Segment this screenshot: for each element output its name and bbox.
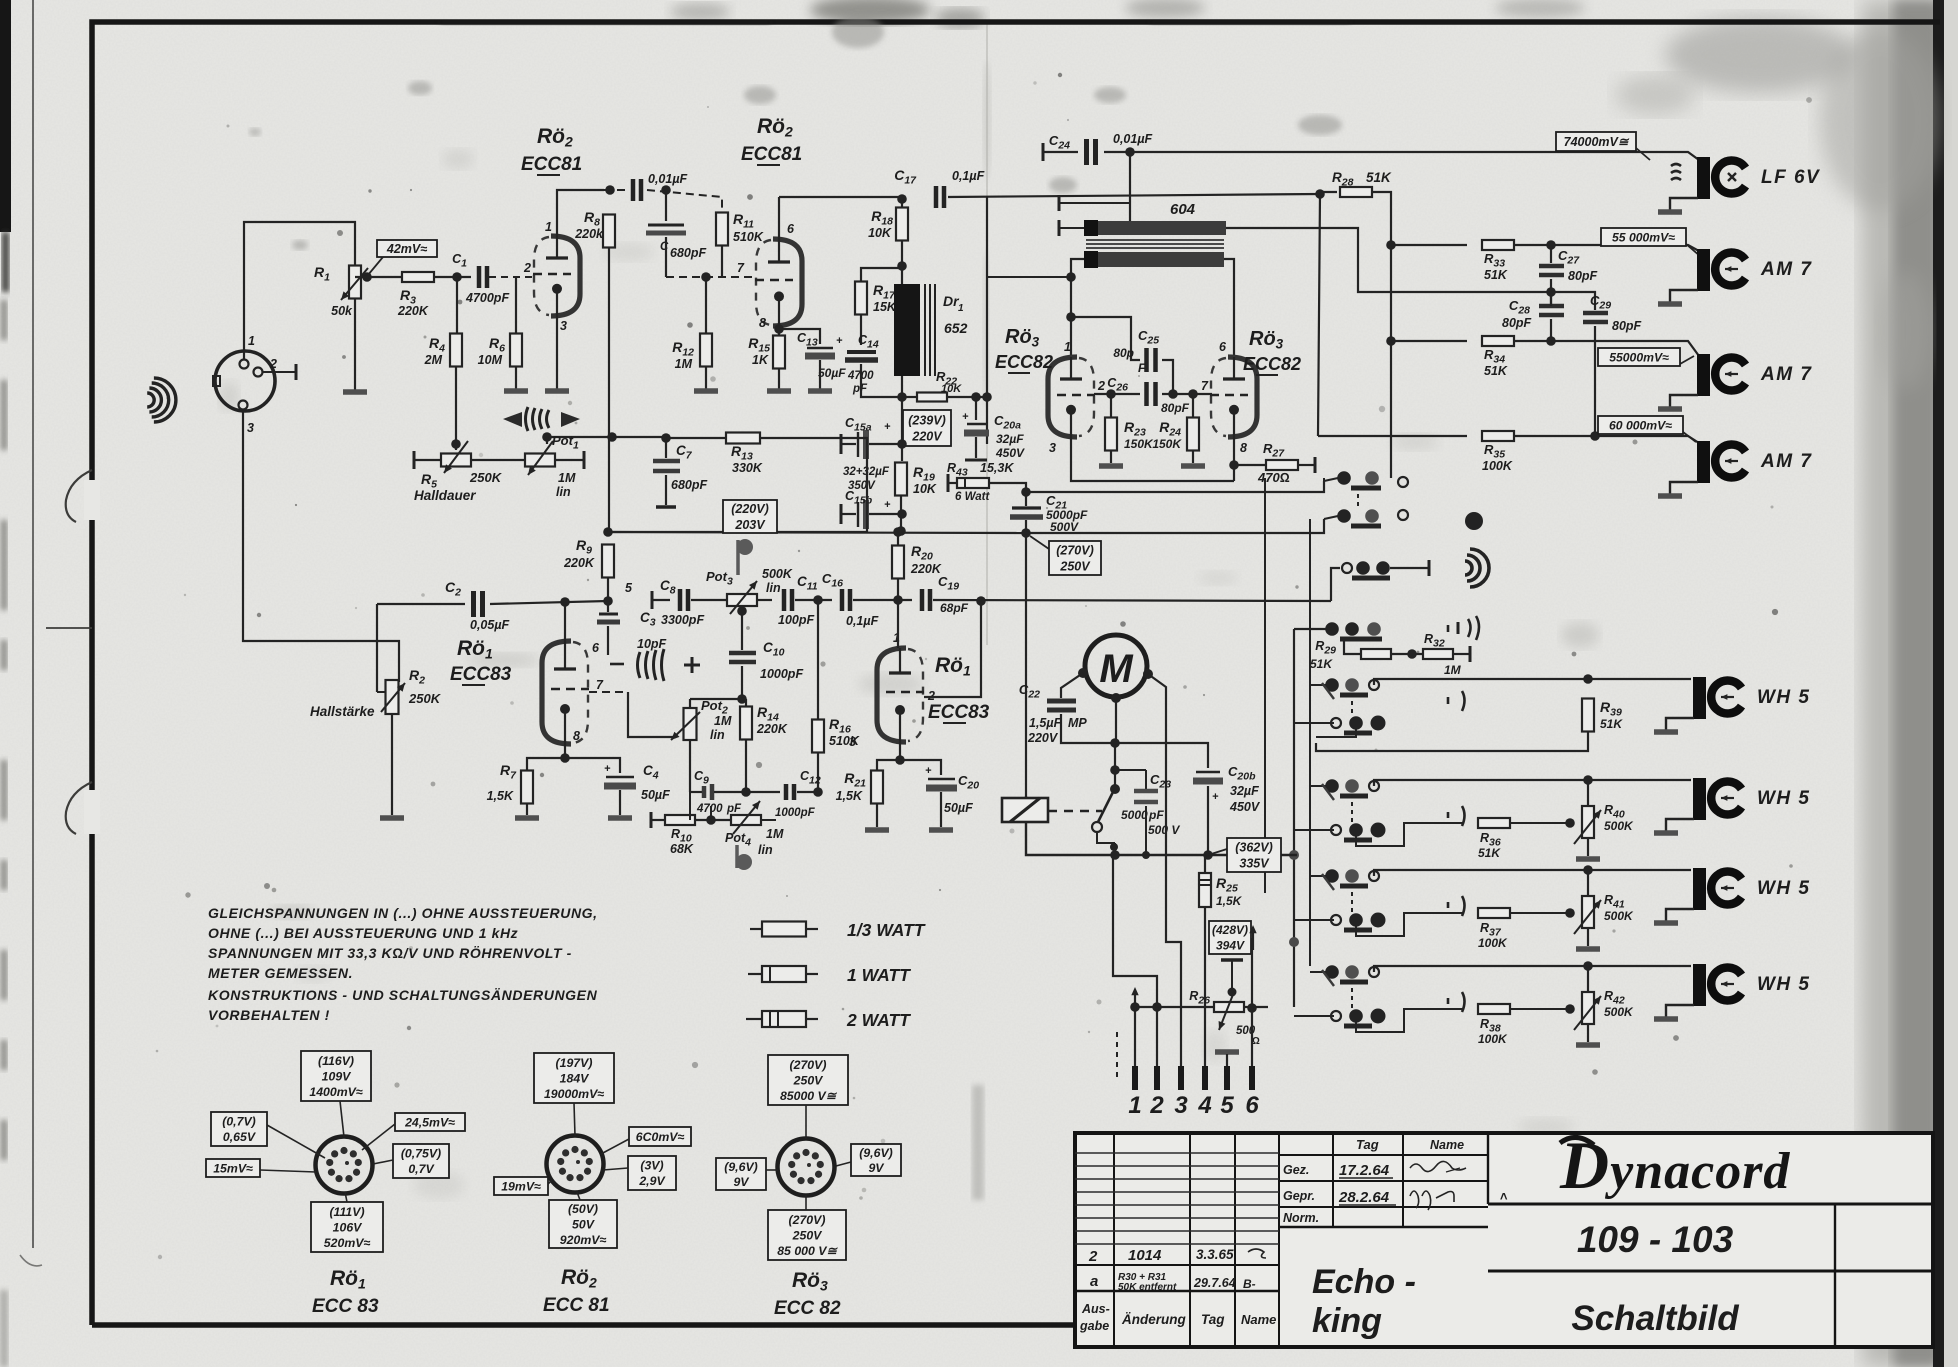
svg-text:652: 652 — [944, 320, 968, 336]
capacitor C15b — [840, 504, 843, 524]
svg-text:(428V): (428V) — [1212, 923, 1248, 937]
switch cluster for WH5 no4 — [1325, 965, 1339, 979]
svg-text:50K entfernt: 50K entfernt — [1118, 1282, 1177, 1293]
measurement box 220V 203V — [723, 500, 777, 533]
tube Roe3a ECC82 — [1048, 357, 1077, 437]
svg-text:1 WATT: 1 WATT — [847, 965, 911, 985]
svg-text:51K: 51K — [1310, 657, 1333, 671]
resistor R29 51K — [1294, 628, 1332, 630]
svg-text:1: 1 — [1128, 1092, 1141, 1119]
svg-text:WH 5: WH 5 — [1757, 974, 1811, 995]
svg-text:50V: 50V — [572, 1217, 596, 1231]
ground below tube Roe2a cathode — [556, 316, 558, 389]
svg-text:80pF: 80pF — [1502, 316, 1532, 330]
svg-text:+: + — [884, 499, 891, 511]
svg-text:Norm.: Norm. — [1283, 1211, 1319, 1225]
wire row y=699 pot2/R14 — [690, 698, 746, 700]
title mini table Gez Gepr Norm — [1279, 1154, 1488, 1156]
svg-text:VORBEHALTEN !: VORBEHALTEN ! — [208, 1007, 330, 1023]
svg-text:15K: 15K — [873, 300, 897, 314]
svg-text:1M: 1M — [558, 471, 576, 485]
signature squiggles — [1410, 1161, 1466, 1171]
wire tube plate up to C5 net — [557, 190, 604, 236]
svg-text:51K: 51K — [1484, 364, 1508, 378]
svg-text:203V: 203V — [734, 518, 766, 532]
svg-text:60 000mV≈: 60 000mV≈ — [1609, 418, 1672, 432]
svg-text:42mV≈: 42mV≈ — [386, 242, 427, 256]
connector AM7 no1 — [1697, 249, 1710, 291]
potentiometer Pot3 500K lin — [727, 594, 757, 606]
tube Roe1b ECC83 — [877, 648, 906, 742]
wire left stub row — [987, 276, 1071, 278]
svg-text:394V: 394V — [1216, 939, 1245, 953]
resistor 100K and pot 41 — [1374, 870, 1691, 876]
capacitor C19 68pF — [920, 589, 925, 611]
resistor R8 220k — [603, 215, 615, 248]
svg-text:ECC82: ECC82 — [995, 352, 1053, 372]
svg-text:2 WATT: 2 WATT — [846, 1010, 911, 1030]
svg-text:68K: 68K — [670, 842, 694, 856]
resistor R25 1,5K — [1204, 855, 1206, 873]
wire transformer bottom-right to Roe3b — [1224, 259, 1234, 357]
potentiometer R26 500 Ohm — [1135, 1006, 1213, 1008]
svg-text:(9,6V): (9,6V) — [724, 1160, 758, 1174]
node R43/C21 — [1021, 487, 1031, 497]
capacitor C17 0,1uF — [934, 186, 939, 208]
capacitor C21 5000pF 500V — [1012, 506, 1041, 509]
resistor R4 2M — [456, 277, 458, 333]
ground below R23 — [1099, 463, 1123, 469]
switch cluster S1 (upper, near R27) — [1337, 471, 1351, 485]
title 109-103 box — [1488, 1270, 1933, 1273]
svg-text:28.2.64: 28.2.64 — [1338, 1189, 1390, 1206]
tube pinout R&#246;2 ECC 81 — [547, 1136, 604, 1193]
svg-text:80pF: 80pF — [1568, 269, 1598, 283]
tube Roe3b ECC82 — [1228, 357, 1257, 437]
main signal wire y=600 — [652, 599, 670, 601]
svg-text:ECC83: ECC83 — [928, 702, 990, 723]
svg-text:450V: 450V — [995, 446, 1025, 460]
svg-text:19mV≈: 19mV≈ — [501, 1179, 541, 1193]
svg-text:WH 5: WH 5 — [1757, 687, 1811, 708]
resistor R9 220K — [602, 545, 614, 578]
svg-text:220K: 220K — [563, 556, 595, 570]
svg-text:510K: 510K — [733, 230, 764, 244]
level marks — [1447, 902, 1450, 908]
svg-text:5000: 5000 — [1121, 808, 1148, 822]
connector WH5 no2 — [1693, 778, 1706, 820]
grid wire Roe1b to C19 node — [924, 601, 981, 697]
svg-text:1M: 1M — [714, 714, 732, 728]
svg-text:(239V): (239V) — [908, 413, 946, 427]
svg-text:3: 3 — [247, 421, 254, 435]
svg-text:17.2.64: 17.2.64 — [1339, 1162, 1390, 1179]
svg-text:(270V): (270V) — [790, 1058, 827, 1072]
svg-text:1: 1 — [1064, 340, 1071, 354]
svg-text:1/3 WATT: 1/3 WATT — [847, 920, 926, 940]
microphone symbol — [147, 393, 154, 407]
svg-text:+: + — [962, 411, 969, 423]
measurement box 239V 220V — [903, 410, 951, 446]
svg-text:8: 8 — [573, 729, 580, 743]
svg-text:80pF: 80pF — [1161, 401, 1190, 415]
tube pinout R&#246;1 ECC 83 — [316, 1137, 373, 1194]
measurement box 428V 394V — [1209, 921, 1251, 954]
svg-text:2: 2 — [523, 261, 531, 275]
svg-text:Hallstärke: Hallstärke — [310, 704, 375, 719]
svg-text:9V: 9V — [733, 1175, 750, 1189]
svg-text:500K: 500K — [1604, 909, 1634, 923]
motor switch — [1110, 784, 1120, 794]
wire B+ from R43 right to switch area — [1026, 481, 1324, 492]
svg-text:1: 1 — [248, 334, 255, 348]
svg-text:1: 1 — [958, 303, 964, 314]
svg-text:50k: 50k — [331, 304, 353, 318]
svg-text:470Ω: 470Ω — [1257, 470, 1290, 485]
svg-text:Aus-: Aus- — [1081, 1302, 1110, 1316]
wire transformer top-right to AM rows — [1226, 228, 1595, 310]
arrow at 428V box — [1252, 928, 1254, 950]
scan artifact: top-right smudges — [1665, 17, 1855, 93]
svg-text:2: 2 — [1097, 379, 1105, 393]
wire: mic pin3 down to Hallstaerke net — [243, 410, 399, 682]
svg-text:(270V): (270V) — [1056, 543, 1094, 557]
svg-text:1M: 1M — [675, 357, 693, 371]
erase head symbol minus plus — [610, 663, 624, 666]
svg-text:1M: 1M — [766, 827, 784, 841]
wire R28 node down to R35 row — [1318, 194, 1320, 436]
svg-text:15,3K: 15,3K — [980, 461, 1014, 475]
svg-text:1000pF: 1000pF — [760, 667, 803, 681]
svg-text:500K: 500K — [1604, 819, 1634, 833]
svg-text:1400mV≈: 1400mV≈ — [309, 1085, 362, 1099]
svg-text:250V: 250V — [1059, 559, 1091, 573]
legend 1/3 watt resistor — [750, 928, 762, 930]
svg-text:Gez.: Gez. — [1283, 1163, 1309, 1177]
wire through choke — [901, 266, 903, 284]
measurement box 60000mV — [1598, 416, 1683, 434]
capacitor C3 10pF — [599, 613, 618, 616]
transformer 604 winding bars — [1084, 220, 1098, 236]
resistor R27 470 Ohm — [1234, 464, 1266, 466]
svg-text:ECC 82: ECC 82 — [774, 1298, 841, 1319]
wire trunk C17 line — [779, 196, 902, 198]
resistor R18 10K — [901, 199, 903, 207]
ground below R15 — [767, 388, 791, 394]
capacitor C24 0,01uF — [1042, 143, 1045, 161]
resistor R16 510K — [817, 600, 819, 719]
svg-text:8: 8 — [759, 316, 766, 330]
wire R4 down to R5 row — [455, 367, 457, 450]
resistor R39 51K — [1374, 679, 1691, 685]
svg-text:lin: lin — [766, 581, 781, 595]
connector AM7 no2 — [1697, 354, 1710, 396]
resistor R3 220K — [402, 272, 434, 282]
trunk wire y=531 (B+ to R20/C21) — [608, 532, 1026, 533]
capacitor C5 0,01uF — [604, 189, 626, 191]
svg-text:0,05µF: 0,05µF — [470, 618, 510, 632]
wire R2 wiper connect — [377, 691, 385, 693]
svg-text:6: 6 — [592, 641, 600, 655]
capacitor C25 80pF — [1071, 317, 1140, 360]
measurement box 270V 250V — [1030, 536, 1049, 549]
svg-text:3: 3 — [1049, 441, 1056, 455]
big ink dot — [1465, 512, 1483, 530]
svg-text:50µF: 50µF — [641, 788, 670, 802]
ground below R6 — [504, 388, 528, 394]
tube Roe2a ECC81 (first half) — [551, 236, 580, 316]
svg-text:gabe: gabe — [1079, 1319, 1109, 1333]
svg-text:king: king — [1312, 1302, 1382, 1340]
svg-text:AM 7: AM 7 — [1760, 364, 1812, 385]
svg-text:250K: 250K — [408, 691, 442, 706]
resistor R10 68K row — [650, 812, 653, 828]
pinout leaders Roe3 — [805, 1105, 807, 1139]
row R34 to AM7 no2 — [1386, 336, 1396, 346]
svg-text:4700: 4700 — [696, 803, 723, 815]
svg-text:1: 1 — [545, 220, 552, 234]
wire pin2 up to motor switch net — [1113, 855, 1157, 1007]
legend 2 watt resistor — [746, 1018, 762, 1020]
svg-text:604: 604 — [1170, 201, 1196, 218]
svg-text:lin: lin — [758, 843, 773, 857]
svg-text:8: 8 — [1240, 441, 1247, 455]
resistor R43 15,3K 6Watt — [947, 474, 950, 492]
capacitor C7 680pF — [661, 433, 671, 443]
resistor 100K and pot 42 — [1374, 966, 1691, 972]
AC symbol at LF6V — [1671, 164, 1681, 180]
svg-text:330K: 330K — [732, 461, 763, 475]
svg-text:0,01µF: 0,01µF — [1113, 132, 1153, 146]
potentiometer Pot4 1M lin — [731, 815, 761, 825]
svg-text:ECC83: ECC83 — [450, 664, 512, 685]
switch cluster S2 (row to R29) — [1331, 568, 1340, 601]
wire pin3 up to motor right net — [1166, 800, 1181, 1069]
resistor R12 1M — [700, 334, 712, 367]
svg-text:1,5K: 1,5K — [836, 789, 863, 803]
potentiometer R2 250K Hallstaerke — [386, 680, 399, 714]
resistor R34 51K — [1482, 336, 1514, 346]
svg-text:55 000mV≈: 55 000mV≈ — [1612, 230, 1675, 244]
resistor R11 510K — [716, 213, 728, 246]
connector WH5 no1 — [1693, 677, 1706, 719]
resistor R21 1,5K — [877, 760, 900, 770]
ground below R12 — [694, 388, 718, 394]
svg-text:7: 7 — [596, 678, 604, 692]
chassis pins 1-6 — [1132, 1066, 1138, 1090]
connector AM7 no3 — [1697, 441, 1710, 483]
measurement box 362V 335V — [1208, 849, 1227, 855]
svg-text:1K: 1K — [752, 353, 769, 367]
resistor R20 220K — [897, 532, 899, 545]
legend 1 watt resistor — [748, 973, 762, 975]
svg-text:(111V): (111V) — [329, 1205, 364, 1219]
speaker symbol small — [1465, 561, 1472, 575]
potentiometer Pot2 1M lin — [689, 699, 691, 709]
capacitor C20a 32uF 450V — [975, 397, 977, 420]
capacitor C23 5000pF 500V — [1145, 770, 1147, 789]
svg-text:80p: 80p — [1113, 346, 1134, 360]
svg-text:Name: Name — [1430, 1138, 1464, 1152]
svg-text:4700pF: 4700pF — [465, 291, 509, 305]
wire C1 to tube grid (dashed) — [489, 276, 534, 278]
capacitor C22 1,5uF MP 220V — [1061, 673, 1083, 698]
measurement box 74000mV — [1556, 132, 1636, 151]
svg-text:2: 2 — [269, 357, 277, 371]
svg-text:2: 2 — [1149, 1092, 1164, 1119]
svg-text:80pF: 80pF — [1612, 319, 1642, 333]
wire C6 to grid dash line — [665, 237, 667, 277]
svg-text:1,5K: 1,5K — [487, 789, 514, 803]
svg-text:6 Watt: 6 Watt — [955, 491, 990, 503]
svg-text:10K: 10K — [913, 482, 937, 496]
svg-text:10K: 10K — [868, 226, 892, 240]
svg-text:4: 4 — [1197, 1092, 1211, 1119]
svg-text:51K: 51K — [1366, 170, 1392, 185]
svg-text:WH 5: WH 5 — [1757, 788, 1811, 809]
svg-text:+: + — [836, 335, 843, 347]
ground below C13 — [808, 388, 832, 394]
svg-text:1000pF: 1000pF — [775, 807, 816, 819]
relay to switch dashed link — [1048, 810, 1102, 812]
svg-text:pF: pF — [726, 803, 742, 815]
svg-text:6: 6 — [1219, 340, 1227, 354]
scan artifact: inner thin margin line — [32, 0, 34, 1248]
resistor R35 100K — [1482, 431, 1514, 441]
capacitor C27 80pF — [1550, 245, 1552, 263]
svg-text:680pF: 680pF — [671, 478, 707, 492]
svg-text:F: F — [1138, 361, 1146, 375]
svg-text:24,5mV≈: 24,5mV≈ — [404, 1115, 455, 1129]
svg-text:METER GEMESSEN.: METER GEMESSEN. — [208, 965, 353, 981]
wire C5 to tube Roe2b grid net — [647, 190, 722, 213]
node trunk/R9 — [603, 527, 613, 537]
svg-text:10pF: 10pF — [637, 637, 667, 651]
svg-text:9V: 9V — [868, 1161, 885, 1175]
level marks — [1447, 812, 1450, 818]
resistor R23 150K — [1110, 394, 1112, 418]
wire pin2 to terminator — [263, 371, 295, 373]
svg-text:184V: 184V — [560, 1071, 591, 1085]
svg-text:WH 5: WH 5 — [1757, 878, 1811, 899]
bus connections left of clusters — [1310, 684, 1330, 686]
svg-text:˄: ˄ — [1500, 1189, 1508, 1204]
wire R8 down B+ rail — [608, 248, 610, 437]
svg-text:(0,75V): (0,75V) — [401, 1147, 441, 1161]
wire C16/C19 node down to tube plate — [897, 600, 899, 648]
ground below R21 — [865, 827, 889, 833]
svg-text:6: 6 — [1245, 1092, 1259, 1119]
wire head row / Pot1 net — [547, 436, 667, 438]
svg-text:220V: 220V — [1027, 731, 1059, 745]
svg-text:5: 5 — [625, 581, 633, 595]
ground below R1 — [343, 389, 367, 395]
title Dynacord box — [1487, 1133, 1489, 1204]
cathode wire Roe1a — [564, 744, 566, 762]
tube pinout R&#246;3 ECC 82 — [778, 1139, 835, 1196]
svg-text:LF 6V: LF 6V — [1761, 167, 1820, 188]
flag marker erase — [735, 845, 739, 868]
wire C2 to tube top — [564, 602, 566, 641]
svg-text:450V: 450V — [1229, 800, 1261, 814]
flag marker record — [736, 540, 740, 575]
svg-text:ECC 83: ECC 83 — [312, 1296, 379, 1317]
svg-text:106V: 106V — [333, 1220, 364, 1234]
svg-text:109V: 109V — [322, 1069, 353, 1083]
capacitor C28 80pF — [1539, 304, 1564, 309]
capacitor C11 100pF — [782, 589, 787, 611]
grid wire Roe1a to Pot2 — [589, 691, 628, 693]
svg-text:250V: 250V — [793, 1073, 825, 1087]
svg-text:Halldauer: Halldauer — [414, 488, 476, 503]
tube Roe2b ECC81 (second half) — [773, 239, 802, 326]
svg-text:500K: 500K — [762, 567, 793, 581]
svg-text:(270V): (270V) — [789, 1213, 826, 1227]
record head symbol (arrows and gap) — [503, 412, 522, 427]
switch cluster for WH5 no2 — [1325, 779, 1339, 793]
svg-text:250V: 250V — [792, 1228, 824, 1242]
capacitor C8 3300pF — [678, 589, 683, 611]
transformer 604 primary stub — [1058, 195, 1061, 211]
ground above pin5 — [1215, 1049, 1239, 1055]
svg-text:MP: MP — [1068, 716, 1087, 730]
svg-text:Ω: Ω — [1252, 1036, 1260, 1047]
resistor R28 51K — [1315, 189, 1325, 199]
switch cluster S3 and resistors R29 R32 — [1325, 622, 1339, 636]
svg-text:+: + — [604, 763, 611, 775]
capacitor C12 1000pF — [746, 791, 780, 793]
capacitor C6 680pF — [665, 190, 667, 221]
node R3/C1/R4 — [452, 272, 462, 282]
level marks — [1447, 998, 1450, 1004]
speckles — [678, 231, 683, 236]
svg-text:1014: 1014 — [1128, 1247, 1162, 1264]
bus wire 362V row — [1026, 822, 1297, 855]
measurement box 42mV — [377, 240, 437, 257]
capacitor C9 4700pF — [690, 791, 702, 793]
svg-text:32µF: 32µF — [996, 432, 1024, 446]
svg-text:AM 7: AM 7 — [1760, 259, 1812, 280]
wire C2 left down to R2 wiper — [376, 604, 378, 692]
small level marks — [1447, 625, 1450, 632]
capacitor C4 50uF — [565, 758, 620, 773]
svg-text:50µF: 50µF — [818, 366, 846, 380]
svg-text:500 V: 500 V — [1148, 823, 1180, 837]
ground below R2 — [380, 815, 404, 821]
svg-text:B-: B- — [1243, 1277, 1256, 1291]
svg-text:19000mV≈: 19000mV≈ — [544, 1087, 604, 1101]
svg-text:KONSTRUKTIONS - UND SCHALT: KONSTRUKTIONS - UND SCHALTUNGSÄNDERUNGEN — [208, 987, 598, 1003]
svg-text:lin: lin — [710, 728, 725, 742]
ground below C20 — [929, 827, 953, 833]
svg-text:2,9V: 2,9V — [638, 1174, 666, 1188]
relay — [1002, 798, 1048, 822]
mechanical dashes — [1116, 1032, 1118, 1078]
measurement box 55000mV a — [1601, 228, 1686, 246]
svg-text:109 - 103: 109 - 103 — [1577, 1219, 1734, 1260]
wire R11 to R12 — [721, 245, 723, 277]
blade marks in clusters — [1322, 683, 1334, 699]
svg-text:68pF: 68pF — [940, 601, 969, 615]
potentiometer Pot1 1M lin — [525, 454, 555, 467]
svg-text:220K: 220K — [910, 562, 942, 576]
svg-text:3: 3 — [1174, 1092, 1188, 1119]
row R35 to AM7 no3 — [1318, 435, 1467, 437]
wire R13 to trunk — [608, 438, 867, 532]
resistor R15 1K — [773, 336, 785, 369]
wire Pot1 wiper to head row — [546, 437, 548, 444]
svg-text:220K: 220K — [756, 722, 788, 736]
